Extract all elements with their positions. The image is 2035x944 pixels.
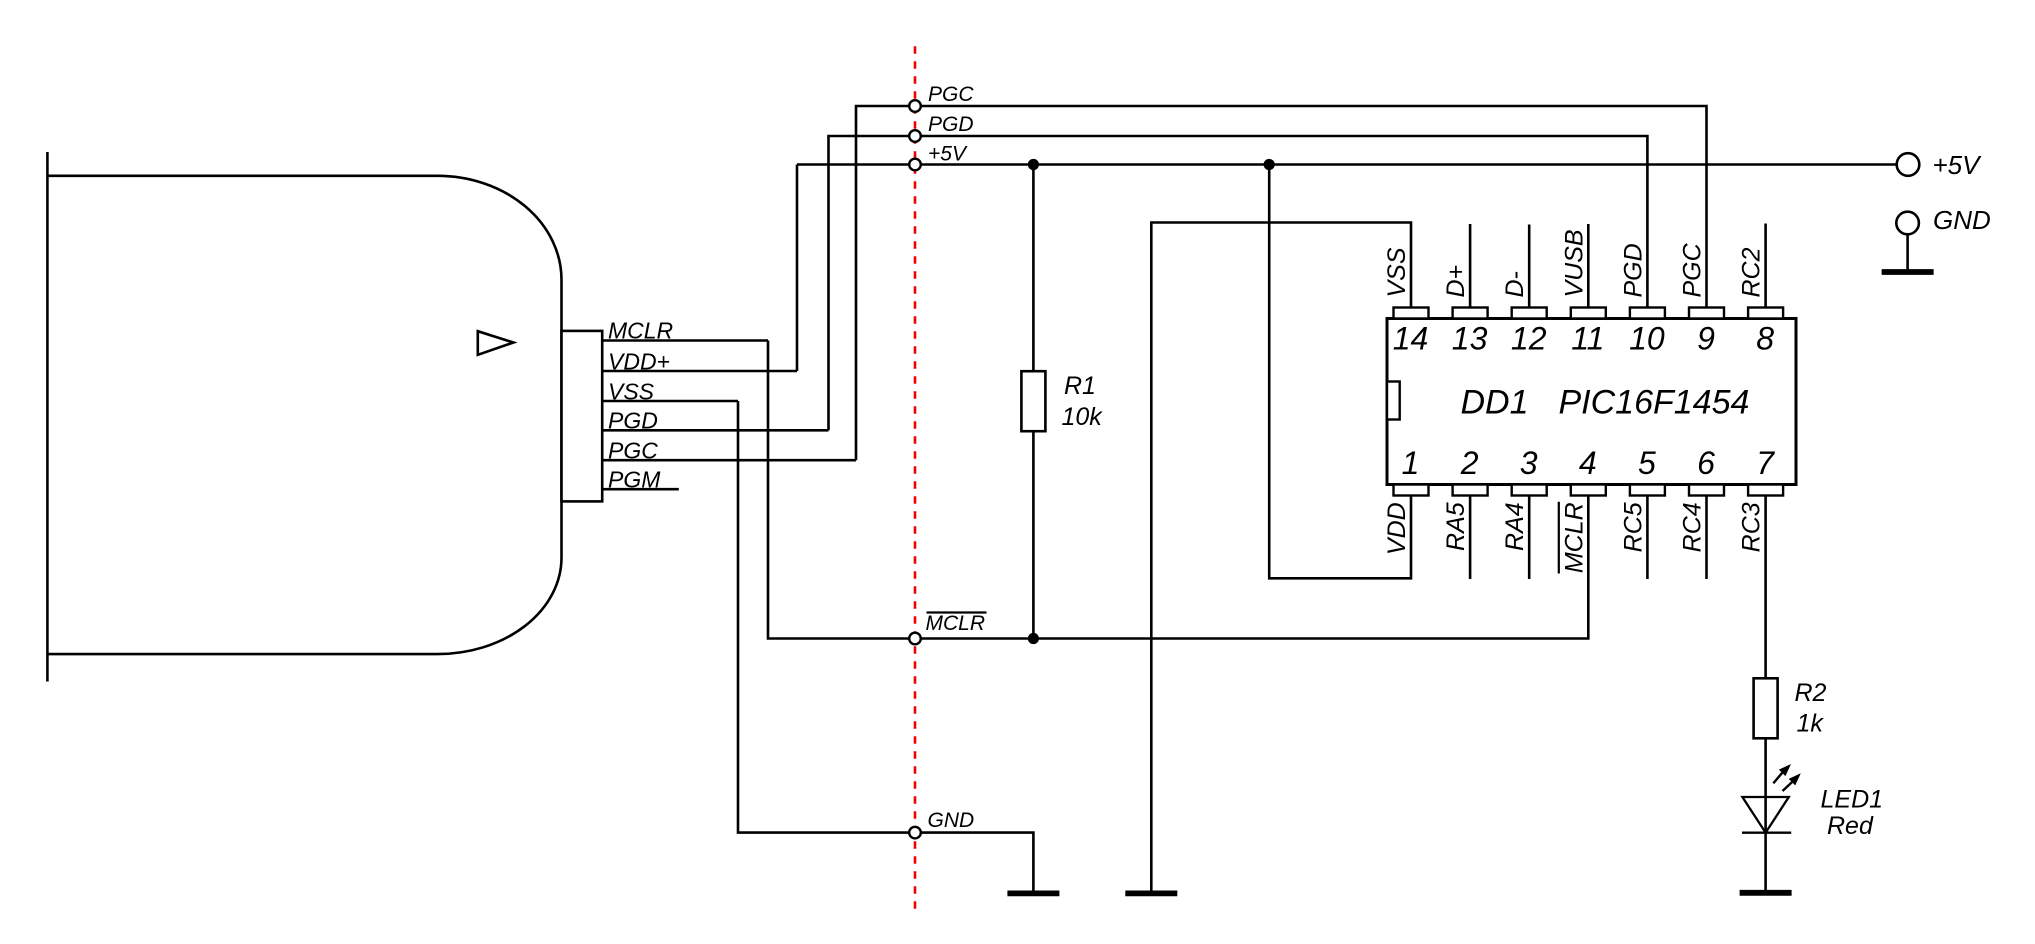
svg-text:MCLR: MCLR (1560, 502, 1588, 573)
svg-text:GND: GND (1933, 205, 1991, 235)
svg-text:RA4: RA4 (1501, 502, 1529, 551)
svg-text:PGC: PGC (928, 83, 974, 106)
svg-text:PGM: PGM (608, 467, 661, 493)
svg-text:PGD: PGD (1619, 243, 1647, 297)
svg-text:PGD: PGD (928, 113, 974, 136)
svg-text:PGD: PGD (608, 408, 658, 434)
svg-text:2: 2 (1460, 445, 1479, 481)
svg-text:RC3: RC3 (1738, 502, 1766, 552)
svg-text:VSS: VSS (1383, 247, 1411, 297)
svg-text:LED1: LED1 (1821, 786, 1884, 814)
svg-text:DD1: DD1 (1461, 384, 1529, 422)
svg-text:R2: R2 (1795, 679, 1827, 707)
svg-text:R1: R1 (1064, 372, 1096, 400)
svg-text:11: 11 (1571, 321, 1604, 357)
svg-text:VUSB: VUSB (1560, 229, 1588, 297)
svg-text:10: 10 (1629, 321, 1665, 357)
svg-text:8: 8 (1756, 321, 1774, 357)
svg-text:+5V: +5V (1933, 150, 1983, 180)
svg-text:VDD: VDD (1383, 502, 1411, 555)
svg-text:PGC: PGC (608, 438, 658, 464)
svg-text:RC4: RC4 (1679, 502, 1707, 552)
svg-text:+5V: +5V (928, 143, 968, 166)
svg-text:VDD+: VDD+ (608, 349, 670, 375)
svg-text:5: 5 (1638, 445, 1656, 481)
svg-text:3: 3 (1520, 445, 1538, 481)
svg-text:PIC16F1454: PIC16F1454 (1559, 384, 1750, 422)
svg-text:GND: GND (928, 809, 975, 832)
svg-text:7: 7 (1756, 445, 1775, 481)
svg-text:6: 6 (1697, 445, 1715, 481)
svg-text:RC2: RC2 (1738, 247, 1766, 297)
svg-text:10k: 10k (1062, 403, 1104, 431)
svg-text:MCLR: MCLR (608, 318, 673, 344)
svg-text:14: 14 (1393, 321, 1429, 357)
svg-text:VSS: VSS (608, 379, 655, 405)
svg-text:MCLR: MCLR (926, 612, 986, 635)
svg-text:D-: D- (1501, 271, 1529, 297)
svg-text:D+: D+ (1442, 265, 1470, 298)
svg-text:RC5: RC5 (1619, 502, 1647, 552)
svg-text:12: 12 (1511, 321, 1547, 357)
svg-text:9: 9 (1697, 321, 1715, 357)
svg-text:4: 4 (1579, 445, 1597, 481)
svg-text:RA5: RA5 (1442, 502, 1470, 551)
svg-text:PGC: PGC (1679, 242, 1707, 297)
svg-text:1: 1 (1402, 445, 1420, 481)
svg-text:Red: Red (1827, 812, 1874, 840)
svg-text:13: 13 (1452, 321, 1488, 357)
svg-text:1k: 1k (1797, 710, 1825, 738)
